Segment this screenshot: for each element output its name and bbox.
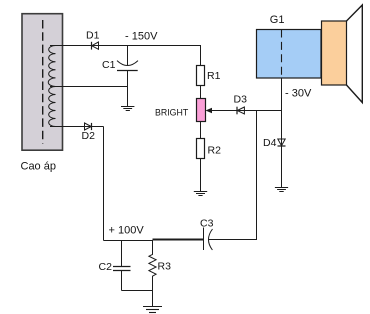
- wire: top winding tap through D1 along -150V bus, corner down to R1: [50, 46, 201, 62]
- diode D3: [237, 107, 244, 115]
- svg-text:D2: D2: [82, 130, 96, 142]
- wire: +100V bus to R3 junction: [104, 240, 153, 242]
- transformer T (flyback, Cao áp) core box: [22, 14, 63, 151]
- svg-text:D3: D3: [234, 93, 248, 105]
- svg-text:+ 100V: + 100V: [109, 225, 145, 237]
- svg-text:C2: C2: [99, 261, 113, 273]
- svg-text:R1: R1: [207, 70, 221, 82]
- wire: BRIGHT wiper through D3 to CRT riser: [211, 110, 282, 112]
- CRT grid G1 (blue gun section): [257, 30, 322, 79]
- wire: middle winding tap to C1 bottom lead: [50, 86, 128, 88]
- wire: G1 riser down through D3 node to D4 and ground: [281, 78, 283, 188]
- ground (D4): [275, 188, 288, 192]
- svg-text:D4: D4: [263, 137, 277, 149]
- wire: potentiometer to R2: [200, 122, 202, 139]
- resistor R3 (zigzag): [149, 241, 156, 307]
- resistor R2: [197, 139, 205, 159]
- wire: D2 riser down to +100V bus: [103, 127, 105, 241]
- ground (R2): [194, 192, 207, 196]
- svg-text:- 30V: - 30V: [285, 87, 312, 99]
- transformer secondary winding coil: [48, 46, 55, 127]
- svg-text:C1: C1: [102, 59, 116, 71]
- wire: bottom winding tap through D2 to corner: [50, 126, 104, 128]
- CRT neck (orange section): [322, 21, 347, 85]
- diode D1: [92, 42, 99, 50]
- wire: R1 bottom to potentiometer: [200, 86, 202, 99]
- svg-text:Cao áp: Cao áp: [21, 161, 56, 173]
- svg-text:D1: D1: [86, 29, 100, 41]
- wire: +100V bus R3 junction to C3 (thick segment): [153, 239, 204, 241]
- potentiometer BRIGHT (pink body): [197, 99, 206, 122]
- wire: C2 bottom to R3 bottom lead: [122, 290, 153, 292]
- wire: bus corner down to R1 top: [200, 46, 202, 66]
- svg-text:R2: R2: [208, 145, 222, 157]
- wire: C3 right plate to riser corner up to D3 node: [208, 111, 256, 240]
- diode D4: [278, 139, 286, 146]
- ground (C1): [121, 107, 134, 111]
- capacitor C2: [113, 241, 131, 291]
- svg-text:C3: C3: [200, 217, 214, 229]
- resistor R1: [197, 66, 205, 86]
- svg-text:G1: G1: [270, 14, 285, 26]
- potentiometer wiper arrow: [206, 108, 213, 113]
- CRT funnel/screen outline: [347, 5, 363, 103]
- ground (R3): [143, 307, 162, 313]
- diode D2: [85, 123, 92, 130]
- capacitor C1: [117, 46, 138, 107]
- wire: R2 bottom to ground: [200, 159, 202, 192]
- capacitor C3: [204, 228, 213, 251]
- svg-text:R3: R3: [158, 260, 172, 272]
- svg-text:BRIGHT: BRIGHT: [155, 107, 189, 117]
- svg-text:- 150V: - 150V: [125, 31, 158, 43]
